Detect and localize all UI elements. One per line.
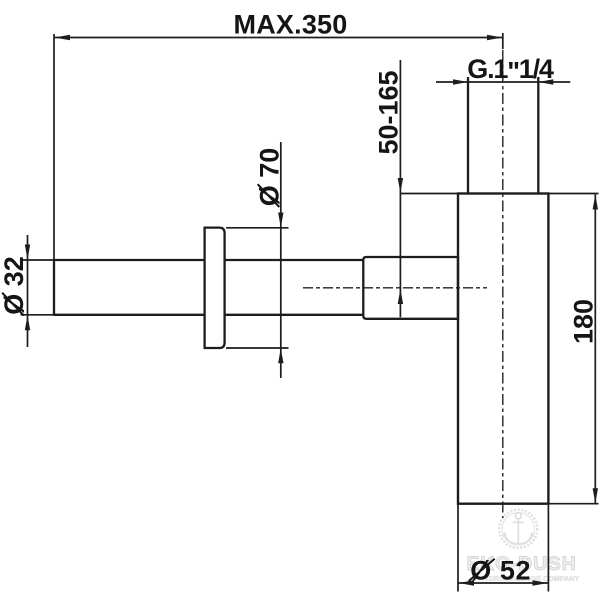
dimension O32: label xyxy=(0,256,29,315)
bottle body xyxy=(458,194,548,504)
svg-text:Ø 52: Ø 52 xyxy=(470,556,531,586)
dimension O70: lower arrow (points up) xyxy=(278,348,283,363)
dimension 50-165: lower arrow (points up at pipe axis) xyxy=(398,289,403,304)
dimension O70: dimension line xyxy=(280,142,282,378)
dimension MAX.350: right arrow xyxy=(487,35,503,40)
dimension O70: label xyxy=(255,148,285,207)
dimension O52: dimension line xyxy=(458,582,548,584)
dimension 50-165: dimension line xyxy=(399,60,401,317)
svg-text:G.1"1/4: G.1"1/4 xyxy=(467,54,554,87)
compression nut at bottle inlet xyxy=(363,257,458,319)
svg-text:180: 180 xyxy=(569,299,599,344)
wall pipe (O32 tube) top and bottom edges xyxy=(54,260,364,315)
dimension MAX.350: left extension line xyxy=(53,34,55,260)
dimension G.1"1/4: right arrow xyxy=(538,79,553,84)
dimension O32: dimension line xyxy=(27,235,29,347)
svg-text:MAX.350: MAX.350 xyxy=(234,10,348,40)
svg-text:50-165: 50-165 xyxy=(374,70,404,154)
dimension O52: left arrow (points left) xyxy=(459,580,475,585)
bottle top extension line (left of bottle and right of bottle) xyxy=(400,193,598,195)
dimension O32: lower arrow (points up) xyxy=(25,315,30,330)
dimension G.1"1/4: dimension line xyxy=(436,81,570,83)
dimension O52: extension lines below bottle xyxy=(458,504,548,592)
bottle bottom extension line (to the right) xyxy=(548,503,598,505)
dimension G.1"1/4: left arrow xyxy=(453,79,468,84)
centerline horizontal (pipe axis) xyxy=(303,287,487,289)
watermark emblem: anchor in rope circle xyxy=(499,510,537,548)
dimension O32: extension lines xyxy=(21,260,54,315)
dimension MAX.350: dimension line xyxy=(54,37,503,39)
dimension 180: top arrow (points up) xyxy=(593,195,598,210)
wall pipe left end cap xyxy=(53,259,55,316)
dimension O52: right arrow (points right) xyxy=(533,580,549,585)
dimension O70: extension lines from flange xyxy=(226,228,289,348)
flange (O70 escutcheon) xyxy=(205,228,225,348)
centerline vertical (bottle axis) xyxy=(502,50,504,518)
dimension 50-165: upper arrow (points down at bottle top) xyxy=(398,178,403,193)
dimension 180: bottom arrow (points down) xyxy=(593,488,598,503)
dimension O70: upper arrow (points down) xyxy=(278,213,283,228)
dimension O52: label xyxy=(469,556,531,586)
dimension 180: dimension line xyxy=(594,195,596,504)
dimension MAX.350: left arrow xyxy=(55,35,71,40)
dimension MAX.350: right extension stub xyxy=(502,33,504,49)
vertical inlet pipe (G 1 1/4) xyxy=(468,77,538,194)
dimension O32: upper arrow (points down) xyxy=(25,245,30,260)
